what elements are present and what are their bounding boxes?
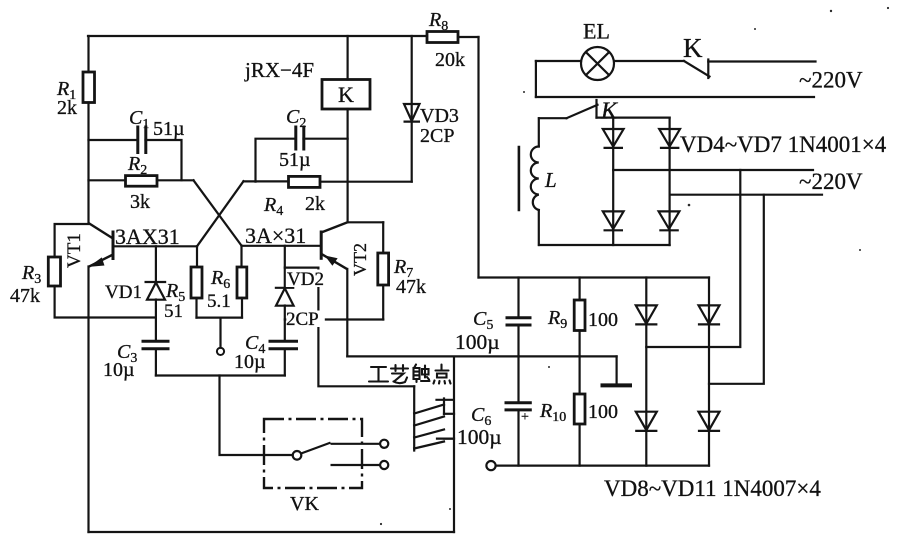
contacts tick 1 [437, 399, 453, 415]
resistor R9 [574, 300, 585, 331]
switch VK upper throw wire [331, 443, 380, 445]
diode VD7 [659, 211, 680, 230]
switch VK lever [301, 443, 331, 454]
svg-text:~220V: ~220V [799, 68, 863, 93]
transistor VT1 emitter [89, 255, 114, 267]
wire R3 top lead [55, 224, 89, 257]
wire C3 bottom lead [155, 349, 157, 376]
wire R7 top lead [382, 222, 384, 253]
diode VD10 [635, 412, 657, 431]
wire R7 bottom to VD2 anode [285, 318, 383, 320]
relay K box [322, 80, 370, 110]
wire bridge1 left leg [612, 118, 614, 245]
contact K1 tick [707, 60, 709, 79]
wire AC1 upper left [536, 60, 581, 62]
svg-text:K: K [338, 82, 354, 107]
lamp EL cross [586, 52, 609, 75]
svg-text:47k: 47k [10, 285, 40, 307]
svg-text:5.1: 5.1 [207, 291, 231, 312]
contacts tick 3 [437, 438, 452, 440]
diode VD6 [603, 211, 624, 230]
svg-text:jRX−4F: jRX−4F [244, 58, 314, 82]
wire C4 bottom lead [284, 349, 286, 376]
resistor R3 [48, 257, 60, 286]
svg-text:10µ: 10µ [234, 351, 266, 373]
wire K2 pivot lead [539, 117, 567, 119]
resistor R4 [289, 176, 321, 187]
wire bridge1 top [597, 116, 670, 118]
contact K2 tick [595, 100, 597, 118]
svg-text:51µ: 51µ [153, 118, 185, 140]
svg-text:VD2: VD2 [287, 269, 324, 290]
svg-text:K: K [600, 99, 619, 125]
wire emitter bus to ground [347, 355, 616, 357]
resistor R6 [237, 267, 247, 298]
svg-text:K: K [683, 33, 703, 63]
svg-text:VD8~VD11 1N4007×4: VD8~VD11 1N4007×4 [604, 476, 821, 501]
svg-text:VD3: VD3 [420, 105, 459, 127]
capacitor C2 plates [296, 126, 304, 151]
svg-text:L: L [544, 168, 557, 192]
wire AC2 upper line [613, 169, 813, 171]
wire relay K lower lead / VT2 collector column [347, 109, 349, 222]
svg-text:VD4~VD7 1N4001×4: VD4~VD7 1N4001×4 [680, 132, 887, 157]
wire R9 bottom lead [578, 331, 580, 357]
diode VD9 [698, 305, 720, 324]
transistor VT2 emitter arrow [326, 256, 337, 265]
inductor L top lead [538, 118, 540, 146]
svg-text:51µ: 51µ [279, 149, 311, 171]
wire DC plus rail [479, 276, 710, 278]
wire left rail lower (VT1 emitter to bottom) [87, 267, 89, 533]
wire VD8 mid tap to AC [646, 170, 740, 347]
transistor VT1 emitter arrow [91, 258, 104, 266]
resistor R7 [378, 253, 389, 285]
svg-text:100µ: 100µ [457, 425, 502, 449]
wire VT2 collector to R7 top [348, 221, 384, 223]
svg-text:2k: 2k [57, 97, 77, 119]
svg-text:VT2: VT2 [350, 243, 370, 276]
wire bridge1 right leg [668, 118, 670, 245]
switch VK lower throw wire [331, 464, 380, 466]
wire VD2 tap to contacts [285, 268, 414, 387]
resistor R10 [574, 394, 585, 424]
transistor VT2 emitter [321, 254, 347, 269]
wire bridge1 bottom / coil bottom [539, 244, 670, 246]
wire bottom rail [89, 531, 455, 533]
resistor R2 [126, 176, 158, 187]
capacitor C6 plates [505, 403, 532, 410]
svg-text:~220V: ~220V [799, 169, 863, 194]
ground bar [601, 383, 633, 387]
test terminal circle [217, 348, 224, 355]
transistor VT2 collector [321, 222, 347, 232]
diode VD1 [145, 282, 167, 300]
svg-text:3AX31: 3AX31 [115, 224, 180, 249]
output terminal circle [486, 461, 495, 470]
inductor L core bar [518, 147, 521, 210]
contacts stroke 3 [414, 430, 444, 438]
label backing for VD2 [286, 270, 331, 288]
diode VD5 [659, 129, 680, 148]
wire R4 right lead to VD3 [320, 181, 412, 183]
label gongyi chudian char yi [391, 365, 408, 383]
wire VD1 anode lead [155, 246, 157, 282]
wire R5 R6 bottom U [197, 317, 243, 319]
svg-text:100: 100 [588, 401, 618, 423]
svg-text:VD1: VD1 [105, 282, 142, 303]
contacts stroke 4 [414, 442, 444, 449]
wire center tap to test terminal [219, 318, 221, 348]
label gongyi chudian char gong [369, 367, 388, 382]
wire C3 C4 bottom bus [156, 374, 285, 376]
transistor VT2 base bar [320, 231, 323, 260]
wire C6 bottom lead [517, 410, 519, 466]
contacts connector 3 [444, 438, 454, 440]
svg-text:+: + [521, 410, 529, 425]
wire cross diagonal R4 to VT1 base [197, 181, 244, 246]
wire bottom DC rail [496, 465, 709, 467]
lamp EL circle [581, 47, 614, 80]
wire R6 bottom lead [241, 298, 243, 318]
wire R7 bottom lead [382, 285, 384, 320]
svg-text:51: 51 [164, 301, 183, 322]
contact K2 lever [567, 105, 598, 118]
svg-text:3k: 3k [130, 191, 150, 213]
contacts stroke 1 [414, 405, 444, 414]
wire R5 bottom lead [195, 298, 197, 318]
svg-text:EL: EL [583, 19, 610, 44]
label backing for 2CP of VD2 [286, 311, 325, 328]
wire R10 bottom lead [578, 424, 580, 466]
wire R10 top lead [578, 356, 580, 394]
svg-text:2CP: 2CP [420, 125, 454, 147]
wire C2 left loop [256, 139, 296, 182]
svg-text:100: 100 [588, 309, 618, 331]
wire AC1 lower line [536, 96, 814, 98]
switch VK dash-dot box [264, 419, 362, 488]
switch VK pivot circle [293, 451, 302, 460]
wire VD9 VD11 column [708, 278, 710, 466]
speckle dots [830, 10, 832, 12]
ground stub [615, 356, 617, 384]
svg-text:VT1: VT1 [64, 233, 85, 268]
capacitor C4 plates [269, 341, 299, 349]
wire C1 right loop [146, 140, 182, 180]
transistor VT1 base bar [112, 231, 115, 261]
svg-text:2CP: 2CP [286, 309, 319, 330]
wire AC1 upper mid [615, 60, 685, 62]
wire C2 right lead [304, 138, 348, 140]
contact K1 lever [684, 61, 710, 77]
wire left rail upper [87, 36, 89, 72]
wire AC1 upper right [708, 60, 815, 62]
contacts stroke 2 [414, 417, 444, 426]
wire R3 bottom lead [55, 286, 156, 318]
diode VD3 [404, 104, 421, 122]
capacitor C5 plates [506, 318, 532, 325]
inductor L bottom lead [538, 210, 540, 245]
wire R9 top lead [578, 278, 580, 301]
wire AC2 lower line [670, 194, 822, 196]
svg-text:20k: 20k [435, 49, 465, 71]
capacitor C3 plates [142, 341, 170, 349]
capacitor C1 plates [138, 126, 146, 155]
wire top rail [88, 35, 427, 37]
svg-text:2k: 2k [305, 193, 325, 215]
wire R2 left lead [89, 179, 126, 181]
transistor VT1 collector [89, 223, 114, 239]
wire relay K upper lead [347, 36, 349, 80]
wire contacts right rail [453, 357, 455, 532]
wire right drop from R8 to DC rail [477, 37, 479, 278]
svg-text:100µ: 100µ [455, 330, 500, 354]
wire VT1 base wire [113, 245, 197, 247]
label gongyi chudian char chu [414, 365, 430, 383]
wire VD9 mid tap to AC [709, 195, 764, 384]
label gongyi chudian char dian [434, 365, 451, 384]
wire cross diagonal R2 to VT2 base [194, 180, 242, 245]
resistor R5 [191, 267, 202, 298]
wire R6 top lead [240, 246, 242, 267]
svg-text:10µ: 10µ [103, 359, 135, 381]
wire C5 bottom lead [517, 325, 519, 357]
wire VD8 VD10 column [645, 278, 647, 466]
wire VT2 base wire [242, 245, 322, 247]
wire R4 left lead [244, 180, 289, 182]
wire AC1 left vertical [535, 61, 537, 97]
wire VT2 emitter column [346, 269, 348, 356]
wire contacts left rail [413, 386, 415, 450]
wire VD2 anode to C4 [284, 306, 286, 342]
switch VK lower throw circle [380, 461, 388, 469]
diode VD8 [635, 305, 657, 324]
resistor R8 [427, 32, 458, 43]
svg-text:VK: VK [290, 493, 319, 515]
wire VD1 cathode lead to C3 [155, 300, 157, 342]
wire VD2 cathode lead [284, 246, 286, 288]
wire R2 right lead [157, 179, 194, 181]
svg-text:3A×31: 3A×31 [245, 223, 306, 248]
wire VD3 branch [411, 36, 413, 182]
switch VK upper throw circle [380, 440, 388, 448]
diode VD11 [698, 412, 720, 431]
wire VK tap [220, 376, 293, 456]
diode VD2 [275, 288, 295, 306]
wire left rail middle [87, 103, 89, 224]
inductor L coil bumps [531, 147, 539, 211]
svg-text:47k: 47k [396, 276, 426, 298]
contacts connector 1 [444, 413, 454, 415]
diode VD4 [603, 129, 624, 148]
resistor R1 [83, 72, 95, 103]
wire R5 top lead [196, 246, 198, 267]
wire C6 top lead [517, 356, 519, 402]
wire R8 right lead [458, 36, 479, 38]
wire C5 top lead [517, 278, 519, 318]
wire C1 left lead [89, 139, 138, 141]
